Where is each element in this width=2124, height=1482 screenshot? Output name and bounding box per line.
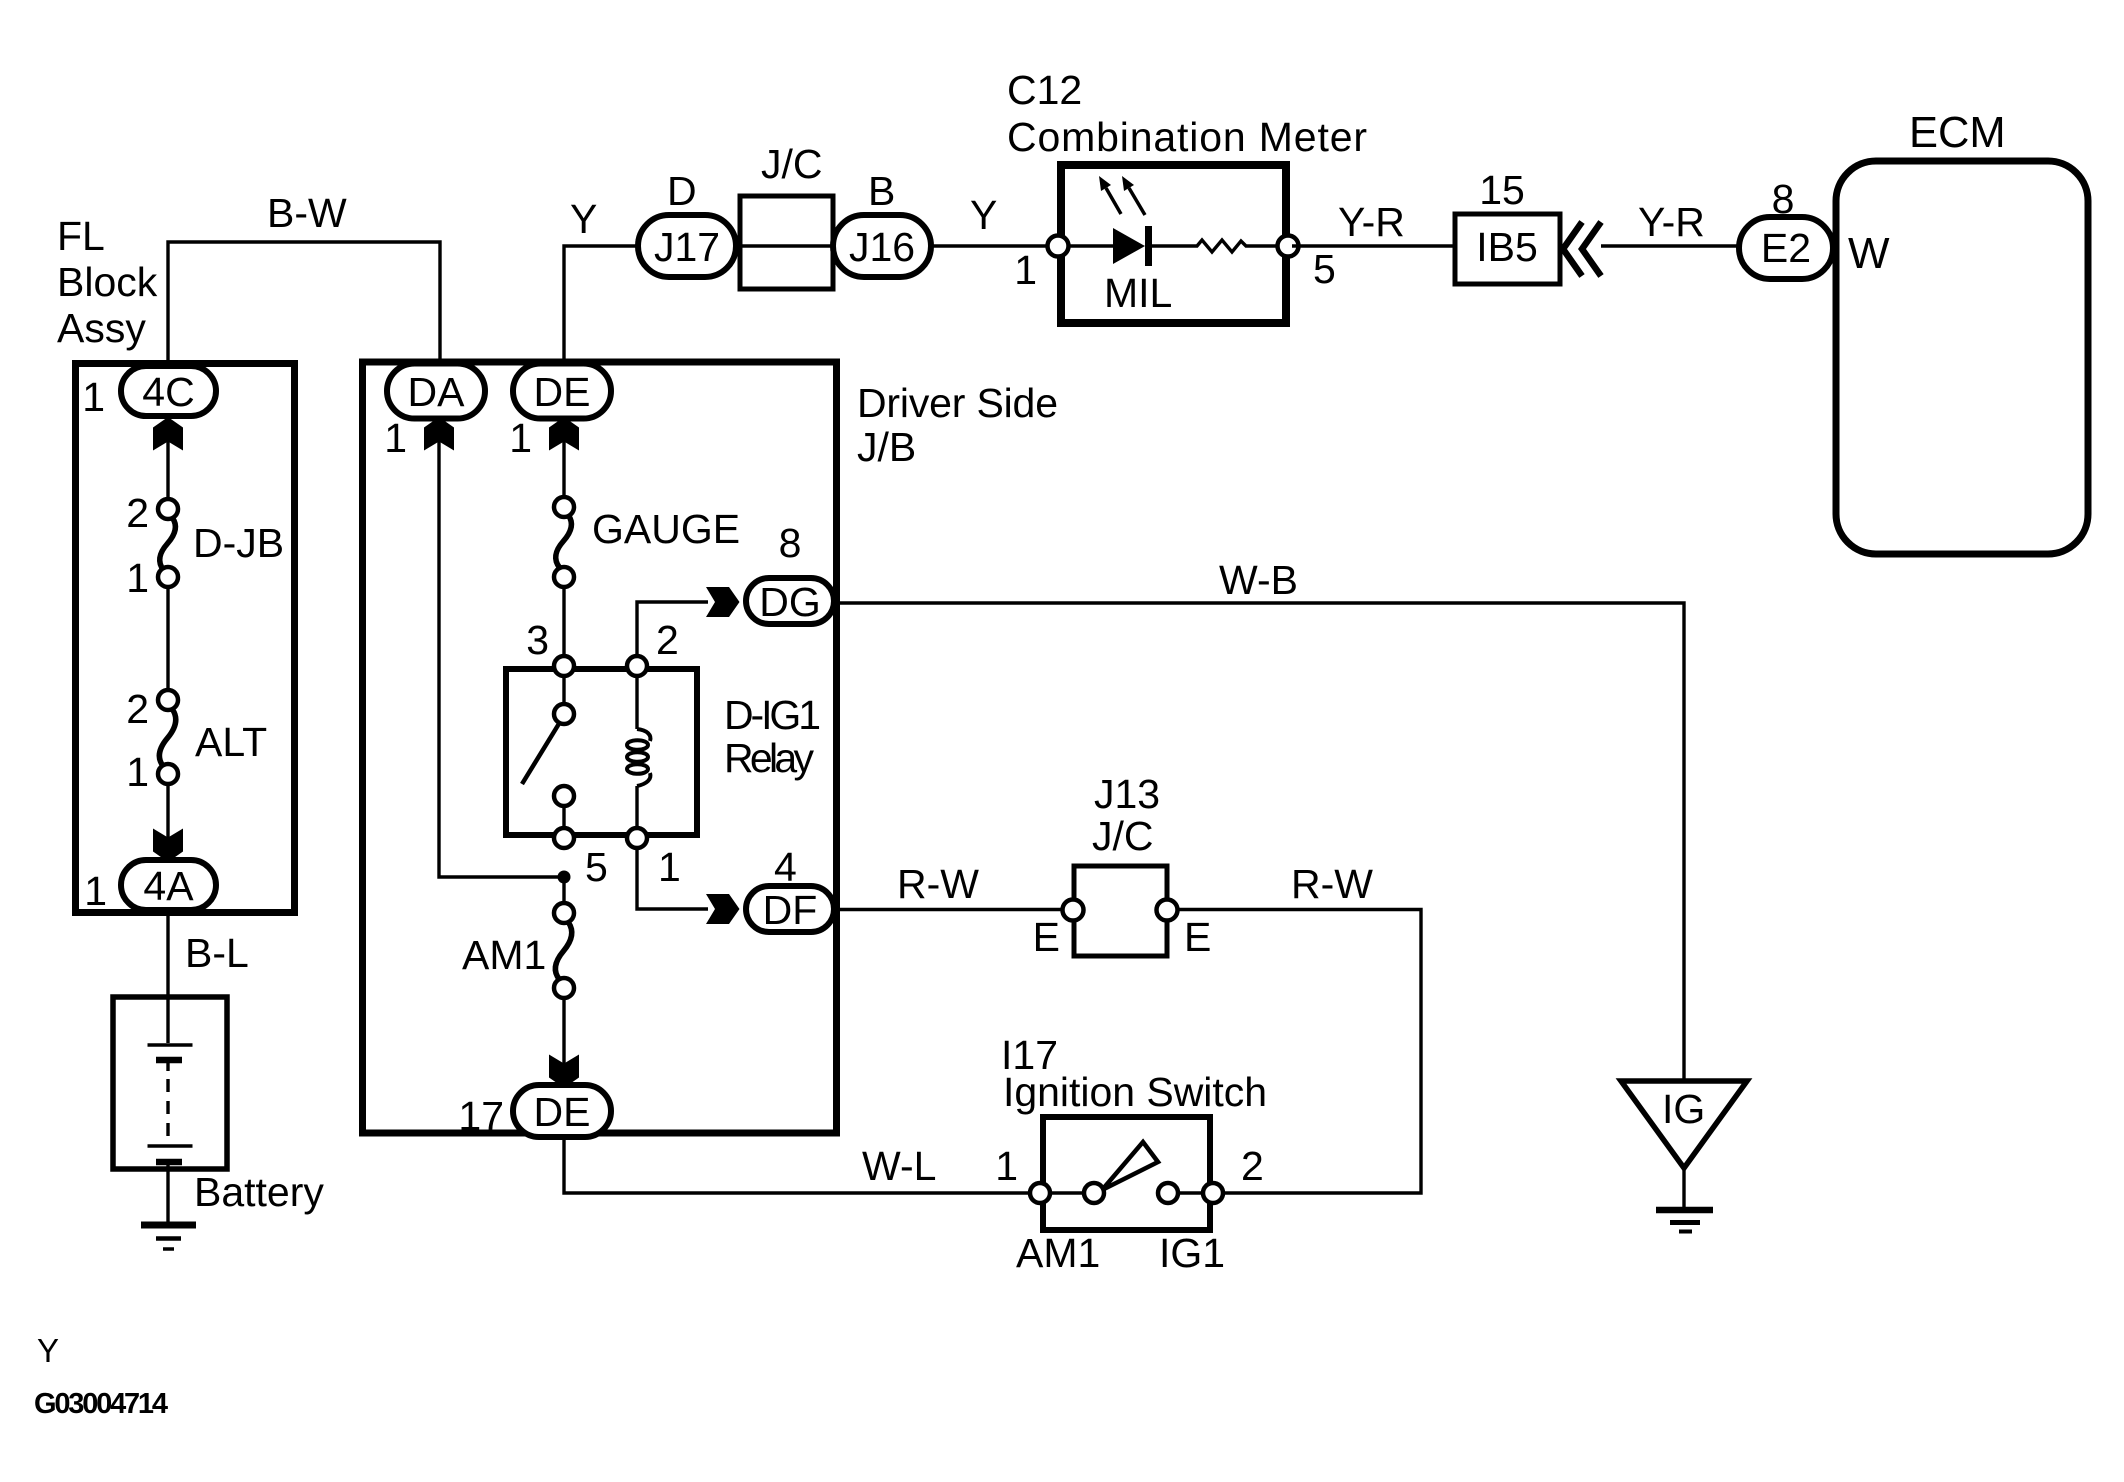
svg-text:DF: DF	[763, 887, 818, 933]
wire AM1 to DE (bottom)	[562, 997, 565, 1085]
fuse GAUGE	[554, 497, 574, 587]
arrow into DE	[549, 417, 579, 451]
label Driver Side J/B	[857, 380, 1058, 470]
svg-text:E2: E2	[1761, 225, 1811, 271]
ignition switch I17 box	[1043, 1117, 1210, 1230]
connector E2	[1739, 217, 1833, 279]
fuse AM1	[554, 903, 574, 998]
pin 1 (ignition switch)	[1030, 1183, 1050, 1203]
fuse D-JB	[158, 499, 178, 587]
svg-text:D: D	[667, 168, 697, 214]
svg-text:J/C: J/C	[1092, 813, 1154, 859]
svg-text:B-L: B-L	[185, 930, 249, 976]
label FL Block Assy	[57, 213, 158, 351]
LED MIL cathode bar	[1145, 226, 1152, 266]
svg-text:R-W: R-W	[1291, 861, 1373, 907]
LED emission arrow 2	[1122, 176, 1145, 215]
arrow into 4A	[153, 829, 183, 863]
svg-text:2: 2	[126, 490, 149, 536]
wire W-B (DG to IG ground)	[840, 603, 1684, 1081]
svg-text:D-JB: D-JB	[193, 520, 284, 566]
svg-text:5: 5	[1313, 246, 1336, 292]
wire 4C to fuse D-JB	[166, 419, 169, 499]
wire ALT to 4A	[166, 784, 169, 858]
svg-text:IG1: IG1	[1159, 1230, 1225, 1276]
label I17 Ignition Switch	[1001, 1032, 1267, 1115]
svg-text:J/B: J/B	[857, 424, 916, 470]
relay switch arm	[522, 722, 560, 784]
wire Y-R (IB5 to E2)	[1601, 244, 1740, 247]
svg-text:Ignition Switch: Ignition Switch	[1003, 1069, 1267, 1115]
wire inside meter (node 1 to LED)	[1058, 244, 1113, 247]
svg-text:J17: J17	[654, 224, 720, 270]
wire DE to fuse GAUGE	[562, 419, 565, 497]
node 5 (meter)	[1278, 236, 1299, 257]
wire relay pin3 to contact	[562, 676, 565, 704]
svg-text:ECM: ECM	[1909, 109, 2006, 157]
wire Y (J16 to combination meter)	[931, 244, 1058, 247]
ground triangle IG	[1621, 1081, 1747, 1168]
svg-text:Driver Side: Driver Side	[857, 380, 1058, 426]
svg-text:1: 1	[84, 868, 107, 914]
wire D-JB to ALT	[166, 587, 169, 690]
arrow into 4C	[153, 417, 183, 451]
arrow into DE (bottom)	[549, 1055, 579, 1089]
wire battery to ground	[166, 1164, 169, 1222]
connector DA	[387, 364, 485, 419]
label D-IG1 Relay	[724, 692, 821, 781]
relay switch contact top	[554, 704, 574, 724]
svg-text:GAUGE: GAUGE	[592, 506, 740, 552]
svg-text:IG: IG	[1662, 1086, 1705, 1132]
wire IG1 contact to pin 2	[1168, 1191, 1213, 1194]
svg-text:Assy: Assy	[57, 305, 146, 351]
fuse ALT	[158, 690, 178, 784]
svg-text:1: 1	[126, 555, 149, 601]
svg-text:Battery: Battery	[194, 1169, 324, 1215]
svg-text:1: 1	[658, 844, 681, 890]
pivot contact AM1	[1084, 1183, 1104, 1203]
label J13 J/C	[1092, 771, 1160, 859]
junction connector J13 box	[1074, 866, 1167, 956]
wire relay pin2 to DG	[637, 602, 708, 656]
arrow into DA	[424, 417, 454, 451]
connector DG	[746, 578, 834, 625]
svg-text:3: 3	[526, 617, 549, 663]
node 1 (meter)	[1048, 236, 1069, 257]
svg-text:15: 15	[1479, 167, 1525, 213]
svg-text:17: 17	[458, 1093, 504, 1139]
svg-text:Y-R: Y-R	[1338, 199, 1405, 245]
svg-text:1: 1	[82, 374, 105, 420]
LED MIL diode triangle	[1113, 228, 1145, 264]
svg-text:4C: 4C	[142, 369, 194, 415]
svg-text:R-W: R-W	[897, 861, 979, 907]
svg-text:1: 1	[126, 749, 149, 795]
relay pin 3	[554, 656, 574, 676]
connector J17	[638, 215, 736, 277]
svg-text:4A: 4A	[143, 863, 194, 909]
svg-text:2: 2	[656, 617, 679, 663]
svg-text:AM1: AM1	[1016, 1230, 1100, 1276]
wire relay pin1 to DF	[637, 848, 708, 909]
svg-text:Y: Y	[970, 192, 997, 238]
ground (IG)	[1656, 1210, 1713, 1232]
node 5 junction dot	[558, 871, 571, 884]
svg-text:DA: DA	[408, 369, 466, 415]
svg-text:2: 2	[126, 686, 149, 732]
svg-text:Relay: Relay	[724, 735, 815, 781]
svg-text:Y: Y	[37, 1332, 59, 1369]
wire W-L (DE to ignition switch)	[564, 1137, 1040, 1193]
connector DF	[746, 886, 834, 933]
relay switch contact bottom	[554, 786, 574, 806]
resistor (MIL series)	[1152, 240, 1288, 252]
wire B-W (4C to DA)	[168, 242, 440, 364]
wire DA to node 5 junction	[439, 419, 564, 877]
chevron splice arrows at IB5	[1563, 222, 1601, 276]
relay pin 5	[554, 828, 574, 848]
wire B-L (4A to battery)	[166, 912, 169, 1043]
svg-text:DE: DE	[534, 369, 591, 415]
arrow into DF	[706, 894, 740, 924]
svg-text:Y: Y	[570, 196, 597, 242]
connector 4A	[121, 860, 216, 910]
wire Y-R (meter to IB5)	[1292, 244, 1455, 247]
svg-text:1: 1	[509, 415, 532, 461]
contact IG1	[1158, 1183, 1178, 1203]
connector J16	[833, 215, 931, 277]
svg-text:Combination Meter: Combination Meter	[1007, 114, 1367, 160]
svg-text:1: 1	[384, 415, 407, 461]
pin 2 (ignition switch)	[1203, 1183, 1223, 1203]
connector DE (top)	[513, 364, 611, 419]
svg-text:IB5: IB5	[1476, 224, 1538, 270]
relay D-IG1 box	[506, 669, 697, 835]
svg-text:MIL: MIL	[1104, 270, 1172, 316]
svg-text:B-W: B-W	[267, 190, 347, 236]
svg-text:FL: FL	[57, 213, 105, 259]
svg-text:W-L: W-L	[862, 1143, 936, 1189]
svg-text:5: 5	[585, 844, 608, 890]
ignition switch lever	[1102, 1142, 1158, 1190]
ground (battery)	[141, 1225, 196, 1249]
svg-text:ALT: ALT	[195, 719, 267, 765]
svg-text:DG: DG	[759, 579, 821, 625]
relay pin 1	[627, 828, 647, 848]
svg-text:8: 8	[779, 520, 802, 566]
relay coil	[627, 676, 650, 828]
svg-text:E: E	[1033, 914, 1060, 960]
svg-text:1: 1	[995, 1143, 1018, 1189]
node E (J13 right)	[1157, 900, 1178, 921]
battery cell plates	[148, 1045, 193, 1162]
junction connector J/C box (top)	[740, 196, 833, 289]
svg-text:E: E	[1184, 914, 1211, 960]
connector 4C	[121, 366, 216, 416]
wire AM1 pin to pivot	[1040, 1191, 1094, 1194]
svg-text:C12: C12	[1007, 67, 1082, 113]
Driver Side J/B box	[363, 362, 837, 1133]
svg-text:G03004714: G03004714	[34, 1388, 168, 1420]
wire R-W (DF to J13)	[840, 908, 1073, 911]
svg-text:B: B	[868, 168, 895, 214]
connector DE (bottom)	[513, 1085, 611, 1137]
svg-text:J/C: J/C	[761, 141, 823, 187]
svg-text:2: 2	[1241, 1143, 1264, 1189]
svg-text:J16: J16	[849, 224, 915, 270]
svg-text:AM1: AM1	[462, 932, 546, 978]
LED emission arrow 1	[1099, 176, 1121, 214]
node E (J13 left)	[1063, 900, 1084, 921]
wire IG to ground	[1682, 1168, 1685, 1210]
svg-text:D-IG1: D-IG1	[724, 692, 821, 738]
wire node to fuse AM1	[562, 877, 565, 903]
svg-text:J13: J13	[1094, 771, 1160, 817]
combination meter box C12	[1061, 165, 1286, 323]
svg-text:W: W	[1848, 229, 1890, 278]
svg-text:W-B: W-B	[1219, 557, 1298, 603]
arrow into DG	[706, 587, 740, 617]
wire GAUGE to relay pin 3	[562, 587, 565, 660]
FL block assy box	[76, 364, 295, 913]
svg-text:DE: DE	[534, 1089, 591, 1135]
svg-text:Y-R: Y-R	[1638, 199, 1705, 245]
connector IB5	[1455, 214, 1560, 284]
svg-text:Block: Block	[57, 259, 158, 305]
svg-text:1: 1	[1014, 247, 1037, 293]
wire R-W (J13 to ignition switch)	[1177, 910, 1421, 1194]
relay pin 2	[627, 656, 647, 676]
wire Y (DE to J17)	[564, 246, 640, 364]
wire contact to relay pin5	[562, 806, 565, 828]
ECM box	[1836, 161, 2088, 554]
battery box	[113, 997, 227, 1169]
